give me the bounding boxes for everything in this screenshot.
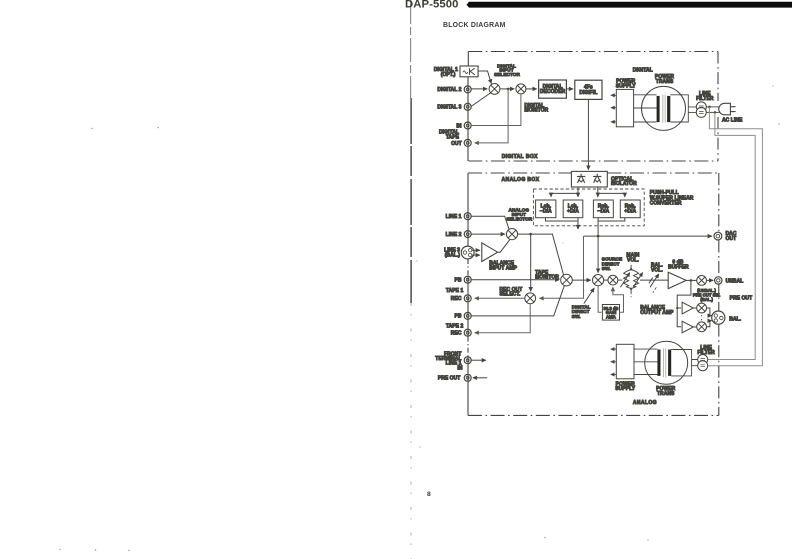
switch bal pre out upper xyxy=(697,303,707,313)
svg-text:DIGITAL BOX: DIGITAL BOX xyxy=(502,154,538,160)
wire lower amp to switch xyxy=(693,326,696,328)
block analog POWER SUPPLY xyxy=(616,344,634,379)
connector FRONT TERMINAL LINE 1 xyxy=(464,357,471,364)
wires supply to analog transformer xyxy=(634,349,657,374)
svg-text:SUPPLY: SUPPLY xyxy=(615,386,635,392)
connector DIGITAL TAPE OUT xyxy=(464,139,471,146)
svg-text:LINE 2: LINE 2 xyxy=(446,232,462,238)
DAC block Lch -D/A xyxy=(536,200,556,218)
svg-text:TAPE 2: TAPE 2 xyxy=(446,324,464,330)
transformer digital xyxy=(642,86,686,130)
svg-text:LINE 1: LINE 1 xyxy=(446,214,462,220)
svg-text:MONITOR: MONITOR xyxy=(524,107,548,113)
switch rec out select xyxy=(525,293,536,304)
svg-text:SELECT.: SELECT. xyxy=(500,292,521,298)
line filter digital xyxy=(696,102,706,118)
wires supply to transformer xyxy=(634,95,657,122)
connector DIGITAL 3 xyxy=(464,103,471,110)
digital box border xyxy=(468,52,718,162)
op-amp balance input amp xyxy=(482,243,498,262)
junction node xyxy=(529,233,532,236)
svg-text:PRE OUT: PRE OUT xyxy=(730,295,753,301)
svg-text:TRANS: TRANS xyxy=(657,391,675,397)
svg-text:IN: IN xyxy=(456,123,461,129)
wire tape monitor to source direct xyxy=(572,279,590,281)
wire source direct to sw2 xyxy=(604,279,609,281)
block 36.3 dB GAIN AMP xyxy=(602,305,619,321)
svg-text:VOL.: VOL. xyxy=(627,257,639,263)
wire TAPE2 PB to tape monitor xyxy=(471,285,564,316)
gang link marks xyxy=(701,315,703,320)
wire Lch DAC outputs join xyxy=(546,218,579,229)
svg-text:INPUT AMP: INPUT AMP xyxy=(489,265,517,271)
wire buffer to unbal switch xyxy=(686,279,697,281)
wire isolator to Rch DACs xyxy=(598,187,625,197)
wire lower switch to BAL connector xyxy=(707,321,712,327)
wire isolator to Lch DACs xyxy=(551,187,578,197)
wire Rch DAC outputs join xyxy=(598,218,625,221)
wire selector output xyxy=(518,234,564,276)
switch direct sw2 xyxy=(608,275,618,285)
wires transformer to analog line filter xyxy=(671,350,698,376)
line filter analog xyxy=(698,355,708,371)
optical isolator box U1 xyxy=(571,171,607,187)
block digital POWER SUPPLY xyxy=(616,89,633,126)
scan speckles xyxy=(59,85,779,551)
wire buffer junction to balance amps xyxy=(677,280,691,326)
DAC block Rch -D/A xyxy=(593,200,613,218)
wire main vol to buffer xyxy=(640,279,668,281)
connector TAPE 1 PB xyxy=(464,276,471,283)
wire balance amp to selector xyxy=(498,240,510,253)
switch digital monitor xyxy=(516,84,526,94)
wire monitor to decoder xyxy=(526,88,537,90)
connector DIGITAL TAPE IN xyxy=(464,122,471,129)
wire LINE 1 to selector xyxy=(471,216,509,230)
wire DAC line down to rec out select xyxy=(540,236,584,298)
svg-text:FILTER: FILTER xyxy=(697,350,715,356)
connector LINE 1 xyxy=(464,213,471,220)
svg-text:DIGITAL: DIGITAL xyxy=(633,68,653,74)
wire DIGITAL 1 to selector xyxy=(478,71,491,84)
junction node xyxy=(708,106,711,109)
junction node xyxy=(690,279,693,282)
header black bar xyxy=(467,2,793,8)
svg-text:−D/A: −D/A xyxy=(540,209,552,215)
D/A converter dashed enclosure xyxy=(533,189,644,226)
svg-text:OUT: OUT xyxy=(726,236,737,242)
wire rec out select to TAPE1 REC xyxy=(475,297,525,299)
connector LINE 3 (BAL.) XLR xyxy=(461,246,474,259)
op-amp 0dB buffer xyxy=(668,272,686,288)
switch bal pre out lower xyxy=(697,322,707,332)
svg-text:SELECTOR: SELECTOR xyxy=(494,72,520,77)
svg-text:ANALOG BOX: ANALOG BOX xyxy=(502,177,540,183)
svg-text:IN: IN xyxy=(457,365,462,371)
svg-text:CONVERTER: CONVERTER xyxy=(650,201,682,207)
svg-text:(BAL.): (BAL.) xyxy=(445,252,461,258)
wire pre out arrow in xyxy=(473,377,487,379)
svg-text:TAPE 1: TAPE 1 xyxy=(446,288,464,294)
op-amp balance output lower xyxy=(682,321,693,333)
wires transformer to line filter xyxy=(670,95,696,122)
analog box border xyxy=(468,173,719,415)
svg-text:ANALOG: ANALOG xyxy=(633,400,657,406)
wire digifil down to optical isolator xyxy=(587,99,589,169)
switch tape monitor xyxy=(561,274,573,286)
connector TAPE 2 PB xyxy=(464,312,471,319)
wire selector to monitor xyxy=(500,88,514,90)
svg-text:REC: REC xyxy=(451,331,462,337)
wire decoder to digifil xyxy=(566,88,573,90)
svg-text:DECODER: DECODER xyxy=(540,89,566,95)
wire source direct to gain amp xyxy=(598,286,601,313)
connector DAC OUT xyxy=(714,232,722,240)
svg-text:FILTER: FILTER xyxy=(696,96,714,102)
connector BAL XLR xyxy=(712,311,725,324)
svg-text:+D/A: +D/A xyxy=(624,209,636,215)
connector TAPE 1 REC xyxy=(464,295,471,302)
digital input connector bus wire xyxy=(467,77,469,161)
wire filter to plug upper xyxy=(706,106,719,108)
wire sw2 to main vol xyxy=(618,279,623,281)
svg-text:AC LINE: AC LINE xyxy=(722,117,743,123)
svg-text:TRANS: TRANS xyxy=(656,79,674,85)
wire LINE 3 pins to balance amp xyxy=(472,249,480,251)
wire tape IN to monitor xyxy=(471,94,521,125)
wire front terminal out arrow xyxy=(471,359,486,361)
junction node on DAC line xyxy=(597,235,600,238)
svg-text:(OPT.): (OPT.) xyxy=(441,72,456,78)
wire selector junction to tape OUT xyxy=(475,89,508,143)
wire TAPE1 PB to tape monitor xyxy=(471,279,559,281)
svg-text:UNBAL: UNBAL xyxy=(726,278,744,284)
optocoupler symbol right xyxy=(593,174,601,183)
wire DIGITAL 3 to selector xyxy=(471,93,490,107)
svg-text:−D/A: −D/A xyxy=(598,209,610,215)
connector LINE 2 xyxy=(464,231,471,238)
potentiometer main volume xyxy=(620,265,642,298)
svg-text:PRE OUT: PRE OUT xyxy=(438,376,461,382)
svg-text:SUPPLY: SUPPLY xyxy=(616,83,636,89)
svg-text:BUFFER: BUFFER xyxy=(668,264,689,270)
connector UNBAL xyxy=(715,277,722,284)
wire DIGITAL 2 to selector xyxy=(471,88,487,90)
power supply output arrows xyxy=(611,95,616,122)
switch analog input selector xyxy=(506,229,517,240)
switch digital input selector xyxy=(489,84,500,95)
svg-text:DIGIFIL: DIGIFIL xyxy=(579,90,597,96)
svg-text:PB: PB xyxy=(454,314,461,320)
transformer analog xyxy=(645,341,688,384)
DAC block Lch +D/A xyxy=(563,200,583,218)
connector PRE OUT (front) xyxy=(464,374,471,381)
svg-text:BLOCK DIAGRAM: BLOCK DIAGRAM xyxy=(443,22,506,29)
AC wire A to analog filter xyxy=(708,107,763,366)
svg-text:OUTPUT AMP: OUTPUT AMP xyxy=(640,310,674,316)
analog power supply output arrows xyxy=(611,349,617,374)
optical receiver DIGITAL 1 xyxy=(460,66,478,77)
svg-text:DIGITAL 2: DIGITAL 2 xyxy=(437,87,461,93)
svg-text:OUT: OUT xyxy=(451,141,462,147)
junction node xyxy=(676,307,678,309)
switch source direct xyxy=(593,275,604,286)
connector TAPE 2 REC xyxy=(464,329,471,336)
wire to UNBAL connector xyxy=(707,279,714,281)
wire filter to plug lower xyxy=(706,111,719,113)
svg-text:REC: REC xyxy=(451,296,462,302)
AC wire B to analog filter xyxy=(708,112,756,359)
svg-text:SW.: SW. xyxy=(572,314,581,319)
wire upper switch to BAL connector xyxy=(707,308,712,316)
page spine line xyxy=(410,0,413,559)
wire DAC out line xyxy=(584,235,712,237)
svg-text:VOL.: VOL. xyxy=(651,267,663,273)
junction node xyxy=(507,88,510,91)
wire branch to upper balance amp xyxy=(677,307,681,309)
svg-text:AMP.: AMP. xyxy=(606,315,616,320)
svg-text:PB: PB xyxy=(454,278,461,284)
pointer digital direct to switch xyxy=(584,288,594,304)
wire Rch output down to source direct xyxy=(597,221,599,273)
svg-text:BAL.: BAL. xyxy=(729,316,741,322)
potentiometer balance xyxy=(649,274,659,293)
junction node xyxy=(714,111,717,114)
AC plug xyxy=(719,103,736,115)
svg-text:TAPE: TAPE xyxy=(446,134,460,140)
op-amp balance output upper xyxy=(682,302,693,314)
DAC block Rch +D/A xyxy=(620,200,640,218)
optocoupler symbol left xyxy=(577,174,585,183)
wire LINE 2 to selector xyxy=(471,233,505,235)
junction node main vol bottom xyxy=(630,288,632,290)
wire gain amp to direct switch xyxy=(613,287,624,312)
svg-text:DAP-5500: DAP-5500 xyxy=(405,0,459,11)
block DIGITAL DECODER xyxy=(539,80,567,98)
svg-text:8: 8 xyxy=(427,491,431,498)
switch pre out sw (unbal) xyxy=(697,276,707,286)
svg-text:(BAL.): (BAL.) xyxy=(700,297,713,302)
svg-text:DIGITAL 3: DIGITAL 3 xyxy=(437,105,461,111)
wire upper amp to switch xyxy=(693,307,696,309)
wire rec out select to TAPE2 REC xyxy=(475,304,530,333)
connector DIGITAL 2 xyxy=(464,86,471,93)
svg-text:SELECTOR: SELECTOR xyxy=(506,216,532,221)
wire junction down to rec out select xyxy=(530,234,532,291)
block 4Fs DIGIFIL xyxy=(575,80,602,99)
svg-text:ISOLATOR: ISOLATOR xyxy=(611,181,637,187)
junction node main vol top xyxy=(630,268,632,270)
svg-text:SW.: SW. xyxy=(602,266,611,271)
svg-text:+D/A: +D/A xyxy=(567,209,579,215)
